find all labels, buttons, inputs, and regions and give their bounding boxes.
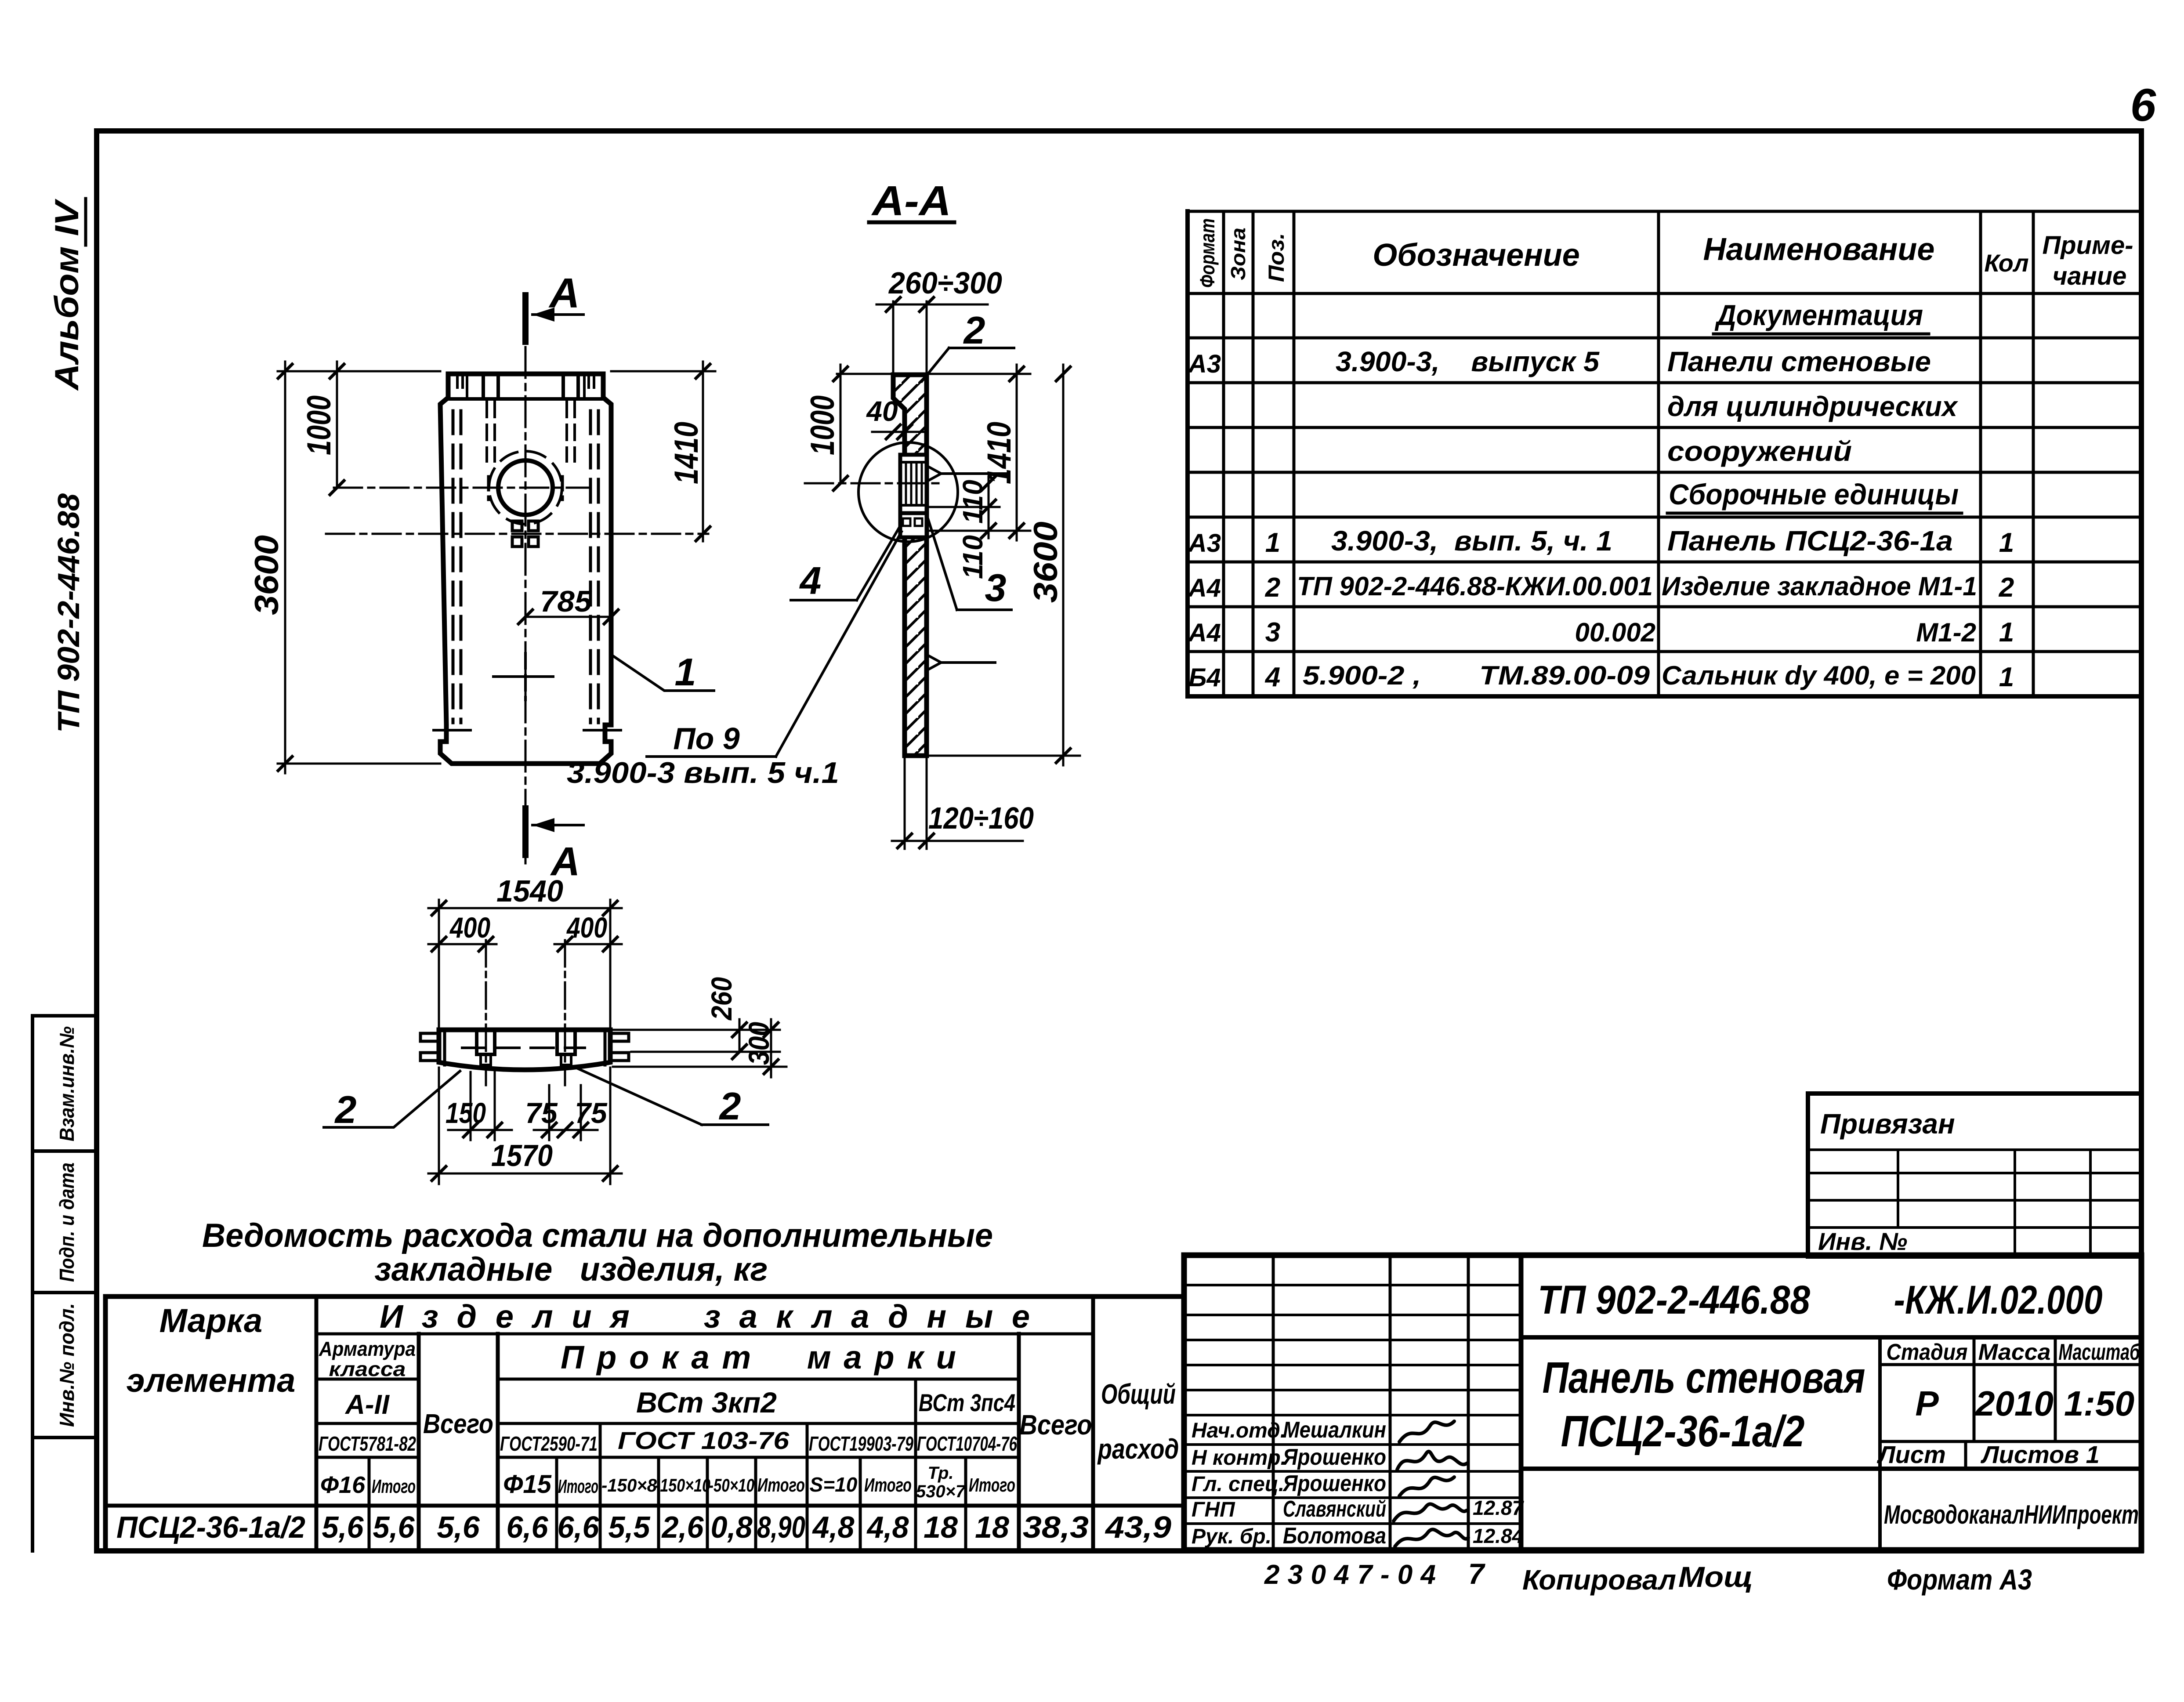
svg-text:8,90: 8,90 bbox=[757, 1510, 805, 1544]
svg-text:1: 1 bbox=[1999, 662, 2014, 692]
svg-text:400: 400 bbox=[449, 911, 490, 944]
svg-text:Листов 1: Листов 1 bbox=[1980, 1441, 2100, 1468]
svg-text:Привязан: Привязан bbox=[1820, 1108, 1955, 1140]
svg-text:260÷300: 260÷300 bbox=[888, 266, 1002, 300]
svg-text:Стадия: Стадия bbox=[1887, 1340, 1968, 1365]
svg-text:Формат: Формат bbox=[1196, 218, 1219, 288]
svg-text:6,6: 6,6 bbox=[507, 1510, 549, 1544]
svg-text:По 9: По 9 bbox=[673, 721, 740, 756]
svg-text:Нач.отд.: Нач.отд. bbox=[1192, 1419, 1286, 1442]
svg-text:Р: Р bbox=[1915, 1384, 1939, 1423]
svg-text:4,8: 4,8 bbox=[812, 1510, 855, 1544]
svg-text:ГОСТ2590-71: ГОСТ2590-71 bbox=[500, 1432, 598, 1455]
svg-text:Панель ПСЦ2-36-1а: Панель ПСЦ2-36-1а bbox=[1667, 525, 1953, 557]
svg-text:12.87: 12.87 bbox=[1473, 1496, 1525, 1519]
svg-text:ПСЦ2-36-1а/2: ПСЦ2-36-1а/2 bbox=[116, 1510, 305, 1544]
svg-text:3600: 3600 bbox=[248, 535, 286, 615]
svg-text:Итого: Итого bbox=[969, 1474, 1015, 1496]
svg-text:Тр.: Тр. bbox=[928, 1463, 954, 1483]
svg-text:Славянский: Славянский bbox=[1283, 1496, 1386, 1522]
svg-text:Панель стеновая: Панель стеновая bbox=[1543, 1353, 1865, 1402]
svg-text:Формат А3: Формат А3 bbox=[1887, 1563, 2032, 1596]
svg-text:класса: класса bbox=[329, 1358, 406, 1380]
svg-text:элемента: элемента bbox=[127, 1362, 296, 1399]
svg-text:ПСЦ2-36-1а/2: ПСЦ2-36-1а/2 bbox=[1561, 1407, 1805, 1456]
svg-text:Сальник dy 400, e = 200: Сальник dy 400, e = 200 bbox=[1662, 661, 1976, 690]
svg-text:сооружений: сооружений bbox=[1667, 435, 1852, 467]
svg-text:3600: 3600 bbox=[1027, 521, 1065, 603]
svg-text:400: 400 bbox=[566, 911, 607, 944]
svg-text:1: 1 bbox=[1265, 528, 1280, 558]
svg-text:5,6: 5,6 bbox=[373, 1510, 415, 1544]
svg-text:Итого: Итого bbox=[372, 1476, 416, 1497]
svg-text:18: 18 bbox=[924, 1510, 958, 1544]
svg-text:Итого: Итого bbox=[558, 1476, 598, 1497]
svg-text:75: 75 bbox=[575, 1097, 608, 1129]
svg-text:1570: 1570 bbox=[491, 1138, 553, 1173]
svg-text:785: 785 bbox=[540, 585, 592, 618]
svg-text:3.900-3 вып. 5 ч.1: 3.900-3 вып. 5 ч.1 bbox=[567, 756, 839, 789]
svg-text:43,9: 43,9 bbox=[1105, 1510, 1171, 1544]
svg-text:закладные изделия, кг: закладные изделия, кг bbox=[375, 1251, 768, 1288]
svg-text:Ф16: Ф16 bbox=[320, 1472, 366, 1498]
svg-text:Болотова: Болотова bbox=[1283, 1523, 1386, 1549]
svg-text:2: 2 bbox=[719, 1084, 741, 1128]
svg-text:7: 7 bbox=[1468, 1557, 1486, 1590]
svg-text:Марка: Марка bbox=[159, 1302, 263, 1340]
svg-text:6,6: 6,6 bbox=[558, 1510, 600, 1544]
svg-text:ГОСТ19903-79: ГОСТ19903-79 bbox=[809, 1432, 913, 1455]
svg-text:4,8: 4,8 bbox=[866, 1510, 909, 1544]
svg-text:ТП 902-2-446.88: ТП 902-2-446.88 bbox=[1538, 1278, 1811, 1322]
svg-text:Арматура: Арматура bbox=[319, 1337, 416, 1360]
svg-text:А4: А4 bbox=[1188, 619, 1221, 647]
svg-text:Ф15: Ф15 bbox=[503, 1470, 552, 1499]
svg-text:530×7: 530×7 bbox=[916, 1482, 966, 1501]
svg-text:5,6: 5,6 bbox=[437, 1510, 480, 1544]
svg-text:18: 18 bbox=[975, 1510, 1009, 1544]
svg-text:Б4: Б4 bbox=[1188, 663, 1221, 692]
svg-text:5,5: 5,5 bbox=[608, 1510, 651, 1544]
svg-text:1000: 1000 bbox=[804, 395, 841, 455]
svg-text:-КЖ.И.02.000: -КЖ.И.02.000 bbox=[1894, 1278, 2103, 1322]
svg-text:МосводоканалНИИпроект: МосводоканалНИИпроект bbox=[1884, 1500, 2139, 1529]
svg-text:Инв.№ подл.: Инв.№ подл. bbox=[55, 1303, 78, 1427]
svg-text:Копировал: Копировал bbox=[1522, 1564, 1676, 1596]
svg-text:чание: чание bbox=[2053, 262, 2127, 290]
svg-text:Гл. спец.: Гл. спец. bbox=[1192, 1473, 1284, 1496]
svg-text:40: 40 bbox=[866, 395, 898, 427]
svg-text:Зона: Зона bbox=[1227, 228, 1250, 280]
svg-text:Наименование: Наименование bbox=[1703, 232, 1935, 267]
svg-text:Инв. №: Инв. № bbox=[1818, 1228, 1907, 1255]
svg-text:1000: 1000 bbox=[301, 395, 338, 455]
svg-text:110: 110 bbox=[957, 535, 989, 579]
svg-text:3: 3 bbox=[1265, 617, 1280, 648]
svg-text:Документация: Документация bbox=[1714, 299, 1923, 331]
svg-text:3.900-3, вып. 5, ч. 1: 3.900-3, вып. 5, ч. 1 bbox=[1331, 525, 1612, 557]
svg-text:5.900-2 , ТМ.89.00-09: 5.900-2 , ТМ.89.00-09 bbox=[1303, 661, 1650, 690]
svg-text:1:50: 1:50 bbox=[2064, 1384, 2134, 1423]
svg-text:А3: А3 bbox=[1188, 350, 1221, 378]
svg-text:150: 150 bbox=[445, 1097, 486, 1129]
svg-text:Мощ: Мощ bbox=[1678, 1561, 1753, 1593]
svg-text:4: 4 bbox=[1264, 662, 1280, 692]
svg-text:Приме-: Приме- bbox=[2042, 231, 2133, 260]
svg-text:300: 300 bbox=[742, 1022, 775, 1065]
svg-text:ТП 902-2-446.88: ТП 902-2-446.88 bbox=[51, 493, 86, 733]
svg-text:М1-2: М1-2 bbox=[1916, 618, 1976, 647]
svg-text:110: 110 bbox=[957, 480, 989, 524]
svg-text:-150×8: -150×8 bbox=[601, 1475, 657, 1496]
svg-text:260: 260 bbox=[705, 977, 738, 1021]
svg-text:S=10: S=10 bbox=[810, 1473, 858, 1496]
svg-text:Масса: Масса bbox=[1978, 1340, 2051, 1365]
svg-text:75: 75 bbox=[525, 1097, 558, 1129]
svg-text:Изделие закладное М1-1: Изделие закладное М1-1 bbox=[1662, 572, 1977, 601]
svg-text:ВСт 3кп2: ВСт 3кп2 bbox=[636, 1386, 777, 1419]
svg-text:0,8: 0,8 bbox=[711, 1510, 753, 1544]
svg-text:1540: 1540 bbox=[496, 874, 563, 908]
svg-text:для цилиндрических: для цилиндрических bbox=[1667, 391, 1958, 422]
svg-text:2,6: 2,6 bbox=[661, 1510, 704, 1544]
svg-text:5,6: 5,6 bbox=[322, 1510, 364, 1544]
svg-text:расход: расход bbox=[1097, 1433, 1179, 1465]
svg-text:Масштаб: Масштаб bbox=[2059, 1340, 2141, 1365]
svg-text:Панели стеновые: Панели стеновые bbox=[1667, 346, 1931, 377]
svg-text:ГОСТ 103-76: ГОСТ 103-76 bbox=[618, 1427, 790, 1454]
svg-text:2: 2 bbox=[963, 308, 985, 352]
svg-text:Лист: Лист bbox=[1876, 1441, 1946, 1468]
svg-text:1410: 1410 bbox=[668, 422, 705, 484]
svg-text:6: 6 bbox=[2130, 80, 2156, 131]
svg-text:Ведомость расхода стали на доп: Ведомость расхода стали на дополнительны… bbox=[202, 1217, 993, 1254]
svg-text:А-II: А-II bbox=[344, 1390, 390, 1420]
svg-text:2: 2 bbox=[1265, 572, 1280, 603]
svg-text:А: А bbox=[548, 270, 580, 317]
svg-text:Альбом IV: Альбом IV bbox=[48, 199, 86, 391]
svg-text:2010: 2010 bbox=[1974, 1384, 2054, 1423]
svg-text:Итого: Итого bbox=[864, 1474, 912, 1496]
svg-text:1: 1 bbox=[1999, 617, 2014, 648]
svg-text:2: 2 bbox=[334, 1088, 357, 1131]
svg-text:Итого: Итого bbox=[757, 1474, 805, 1496]
svg-text:Взам.инв.№: Взам.инв.№ bbox=[55, 1026, 78, 1141]
svg-text:Общий: Общий bbox=[1101, 1378, 1176, 1410]
svg-text:3.900-3, выпуск 5: 3.900-3, выпуск 5 bbox=[1336, 346, 1600, 377]
svg-text:Обозначение: Обозначение bbox=[1373, 238, 1580, 273]
svg-text:Ярошенко: Ярошенко bbox=[1282, 1471, 1386, 1496]
svg-text:ГНП: ГНП bbox=[1192, 1498, 1235, 1521]
svg-text:2: 2 bbox=[1999, 572, 2014, 603]
svg-text:1410: 1410 bbox=[981, 422, 1018, 484]
svg-text:А3: А3 bbox=[1188, 529, 1221, 558]
svg-text:4: 4 bbox=[799, 559, 822, 602]
svg-text:Всего: Всего bbox=[423, 1409, 493, 1439]
svg-text:Кол: Кол bbox=[1984, 249, 2028, 277]
svg-text:12.84: 12.84 bbox=[1473, 1525, 1523, 1547]
svg-text:1: 1 bbox=[1999, 528, 2014, 558]
svg-text:ГОСТ5781-82: ГОСТ5781-82 bbox=[319, 1432, 416, 1455]
svg-text:3: 3 bbox=[985, 566, 1007, 609]
svg-text:Подп. и дата: Подп. и дата bbox=[55, 1162, 78, 1282]
svg-text:120÷160: 120÷160 bbox=[928, 801, 1034, 835]
svg-text:Поз.: Поз. bbox=[1264, 233, 1289, 282]
svg-text:ВСт 3пс4: ВСт 3пс4 bbox=[919, 1389, 1015, 1416]
svg-text:Мешалкин: Мешалкин bbox=[1283, 1417, 1386, 1443]
svg-text:-150×10: -150×10 bbox=[655, 1475, 710, 1496]
svg-text:ТП 902-2-446.88-КЖИ.00.001: ТП 902-2-446.88-КЖИ.00.001 bbox=[1297, 572, 1653, 601]
svg-text:Всего: Всего bbox=[1020, 1409, 1092, 1441]
svg-text:-50×10: -50×10 bbox=[709, 1475, 754, 1496]
svg-text:1: 1 bbox=[675, 650, 696, 694]
svg-text:А-А: А-А bbox=[871, 177, 951, 225]
svg-text:Н контр.: Н контр. bbox=[1192, 1446, 1286, 1470]
svg-text:ГОСТ10704-76: ГОСТ10704-76 bbox=[917, 1432, 1017, 1455]
svg-text:Сборочные единицы: Сборочные единицы bbox=[1669, 478, 1959, 511]
svg-text:00.002: 00.002 bbox=[1575, 618, 1655, 647]
svg-text:Ярошенко: Ярошенко bbox=[1282, 1445, 1386, 1470]
svg-text:А4: А4 bbox=[1188, 574, 1221, 602]
svg-text:Рук. бр.: Рук. бр. bbox=[1192, 1525, 1271, 1548]
svg-text:38,3: 38,3 bbox=[1023, 1510, 1089, 1544]
